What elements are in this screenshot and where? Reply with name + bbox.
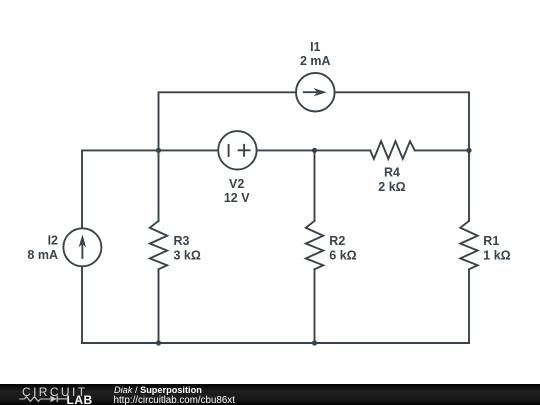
current source I1 — [296, 73, 335, 112]
wire bottom rail — [82, 342, 469, 344]
wire middle rail right of R4 — [415, 149, 469, 151]
footer title text — [114, 385, 236, 405]
svg-text:6 kΩ: 6 kΩ — [329, 248, 356, 262]
label R2 value — [329, 234, 356, 262]
wire R3 branch lower — [158, 269, 160, 343]
svg-text:8 mA: 8 mA — [27, 248, 58, 262]
svg-text:R3: R3 — [174, 234, 190, 248]
svg-text:3 kΩ: 3 kΩ — [174, 248, 201, 262]
resistor R3 — [150, 221, 167, 269]
svg-text:I1: I1 — [310, 40, 320, 54]
svg-text:I2: I2 — [48, 234, 58, 248]
node junction R3-bottom — [156, 340, 161, 345]
current source I2 — [63, 228, 101, 266]
resistor R1 — [460, 221, 477, 269]
svg-text:2 mA: 2 mA — [300, 54, 331, 68]
svg-text:R2: R2 — [329, 234, 345, 248]
wire R3 branch upper — [158, 150, 160, 221]
label R4 value — [378, 166, 405, 195]
node junction R2-top — [312, 148, 317, 153]
svg-text:R4: R4 — [384, 166, 400, 180]
resistor R4 — [370, 141, 415, 159]
label R1 value — [483, 234, 510, 262]
resistor R2 — [306, 221, 323, 269]
svg-text:Diak / Superposition: Diak / Superposition — [114, 385, 202, 395]
svg-text:12 V: 12 V — [224, 191, 250, 205]
svg-text:R1: R1 — [483, 234, 499, 248]
wire middle rail — [82, 150, 370, 343]
wire R2 branch upper — [314, 150, 316, 221]
label I2 value — [27, 234, 58, 263]
node junction R1-middle — [466, 148, 471, 153]
wire R1 branch upper — [468, 150, 470, 221]
label R3 value — [174, 234, 201, 262]
footer bar — [0, 384, 540, 405]
svg-text:2 kΩ: 2 kΩ — [378, 180, 405, 194]
svg-text:1 kΩ: 1 kΩ — [483, 248, 510, 262]
voltage source V2 — [218, 131, 256, 169]
wire R1 branch lower — [468, 269, 470, 343]
svg-text:V2: V2 — [229, 177, 244, 191]
node junction R2-bottom — [312, 340, 317, 345]
svg-text:http://circuitlab.com/cbu86xt: http://circuitlab.com/cbu86xt — [114, 395, 236, 405]
wire top rail — [159, 92, 470, 150]
label I1 value — [300, 40, 331, 68]
label V2 value — [224, 177, 250, 205]
svg-text:LAB: LAB — [67, 393, 93, 405]
node junction R3-top — [156, 148, 161, 153]
wire R2 branch lower — [314, 269, 316, 343]
logo CircuitLab — [19, 385, 92, 405]
